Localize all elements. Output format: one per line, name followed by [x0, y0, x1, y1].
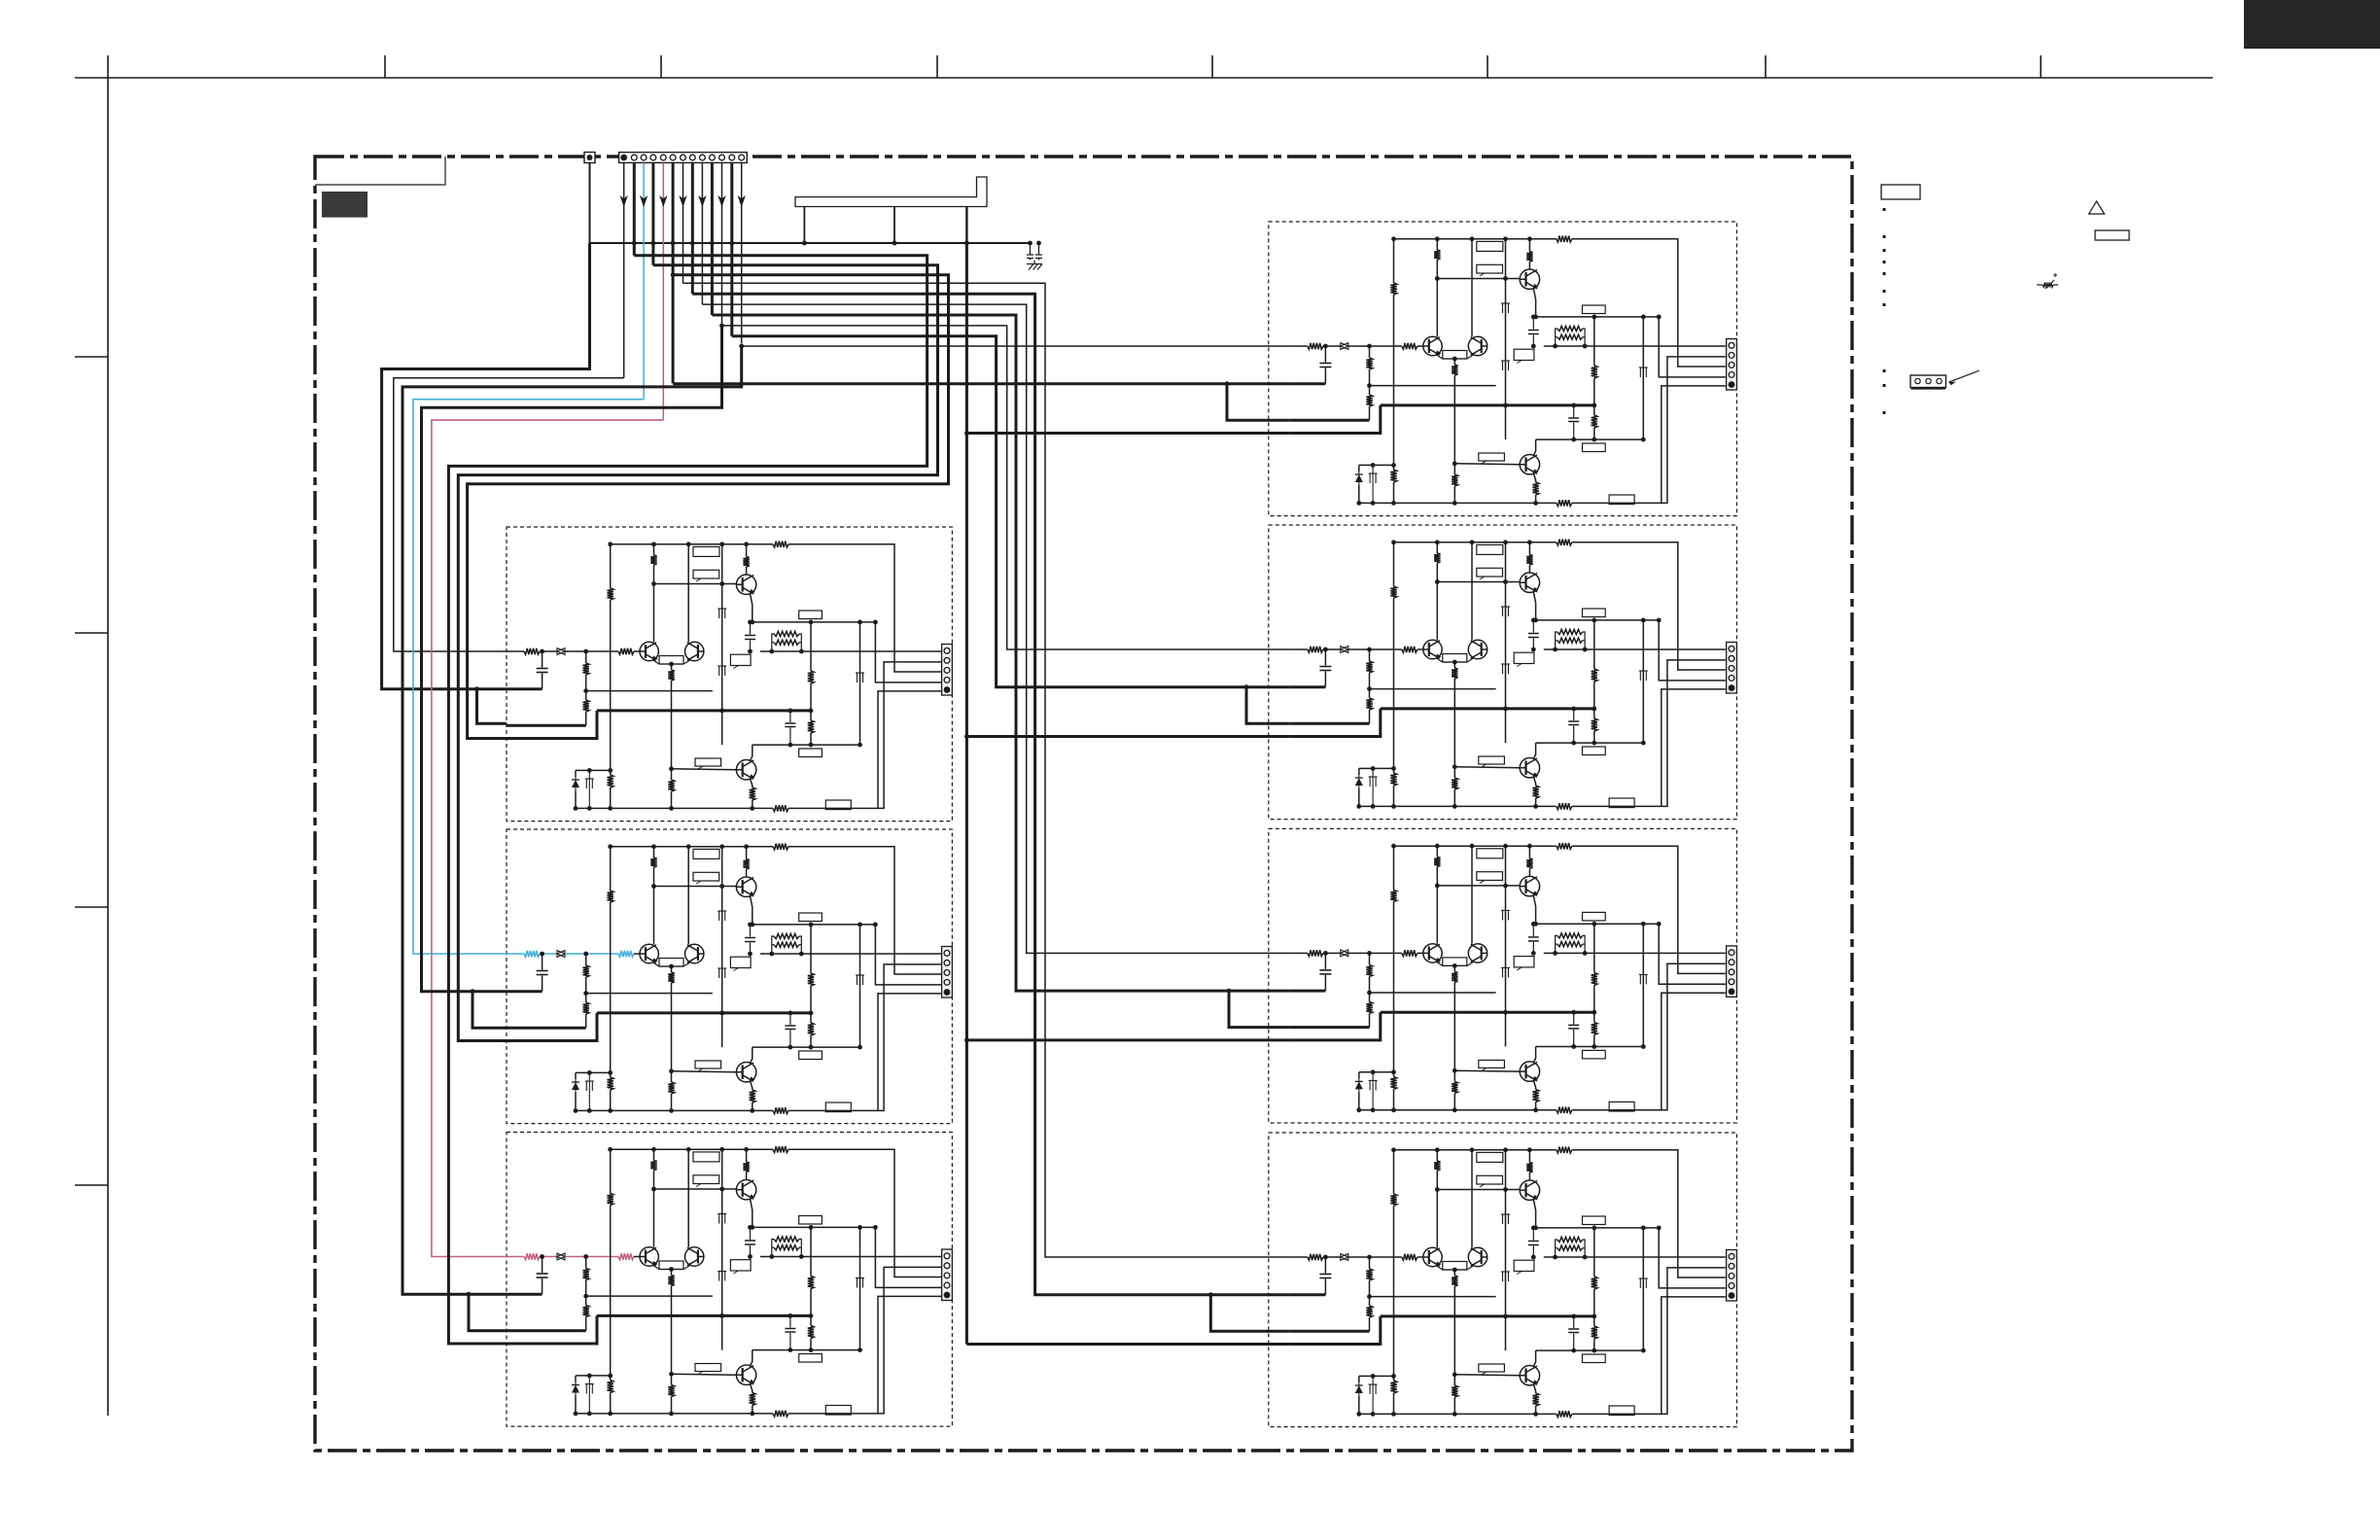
wire pin4 feed R3 [1659, 924, 1726, 984]
wire R1 input feed [742, 345, 1290, 347]
wire column3 R3 [1505, 846, 1507, 1046]
label box2 R3 [1477, 872, 1503, 881]
zener diode L3 [576, 1375, 611, 1377]
label box2 L1 [693, 570, 719, 578]
label box6 R4 [1583, 1354, 1606, 1363]
wire thick rail R3 [1381, 1011, 1594, 1014]
resistor top rail L1 [773, 542, 788, 547]
resistor parallel pair R3 [1553, 951, 1557, 956]
resistor base R4 [1402, 1254, 1417, 1260]
diode input R4 [1341, 1254, 1348, 1261]
transistor pair right L3 [685, 1247, 704, 1266]
resistor collector R4 [1434, 1161, 1440, 1171]
wire base line Q1 L2 [654, 886, 737, 888]
label box1 R2 [1477, 544, 1503, 554]
transistor Q2 R3 [1520, 1062, 1539, 1081]
wire midline to pin1 L3 [760, 1256, 942, 1258]
wire node line2 R1 [1536, 438, 1644, 440]
resistor below rail L3 [810, 1315, 812, 1325]
resistor tail L3 [671, 1374, 673, 1384]
wire input line R4 [1290, 1256, 1308, 1258]
wire link R1 [1370, 385, 1496, 387]
diode input L2 [557, 951, 565, 958]
wire signal pin 5 [662, 163, 664, 421]
resistor emitter R2 [1452, 668, 1457, 679]
resistor top rail R1 [1557, 236, 1572, 242]
pin 2 L1 [944, 657, 950, 663]
resistor Q2 emitter R4 [1533, 1384, 1535, 1394]
wire column4 L3 [859, 1227, 861, 1349]
marking lower R3 [1372, 1072, 1374, 1081]
pin 12 main connector [729, 155, 735, 160]
pin 2 R4 [1729, 1263, 1734, 1269]
label box3 R2 [1583, 609, 1606, 617]
marking lower R4 [1372, 1376, 1374, 1384]
pin 3 main connector [641, 155, 647, 160]
label box3 R4 [1583, 1216, 1606, 1225]
marking column3 R4 [1502, 1214, 1504, 1224]
resistor node1 L1 [810, 622, 812, 671]
capacitor mid R2 [1532, 620, 1534, 633]
pin 1 main connector [620, 155, 627, 161]
label pointer L1 [730, 654, 751, 665]
marking column4 R1 [1639, 367, 1641, 377]
diode input R2 [1341, 647, 1348, 653]
label box1 L3 [693, 1152, 719, 1162]
wire Q2 base L3 [672, 1373, 737, 1376]
resistor base L3 [618, 1253, 634, 1259]
wire midline to pin1 R2 [1544, 648, 1726, 650]
wire column2 R1 [1471, 239, 1473, 336]
resistor below rail R3 [1593, 1012, 1595, 1022]
resistor Q2 emitter L3 [751, 1383, 752, 1393]
label box5 R2 [1479, 756, 1505, 764]
resistor input R3 [1308, 950, 1323, 956]
capacitor mid L1 [750, 622, 752, 635]
wire base line Q1 R3 [1437, 885, 1520, 887]
heatsink bar outline [795, 177, 987, 207]
wire link R2 [1370, 688, 1496, 690]
label box7 R4 [1609, 1406, 1634, 1416]
transistor pair left L1 [640, 642, 658, 660]
wire input line R2 [1290, 648, 1308, 650]
resistor collector R1 [1434, 250, 1440, 260]
capacitor input L3 [542, 1257, 543, 1274]
wire L3-A feed [402, 346, 742, 1294]
wire bottom cluster L3 [576, 1413, 611, 1415]
pin 5 R3 [1729, 989, 1735, 996]
wire square pin drop [589, 163, 591, 244]
wire pin5 feed L2 [878, 994, 942, 1111]
transistor pair right R3 [1468, 944, 1487, 962]
connector output L2 [942, 947, 953, 998]
connector output R2 [1727, 643, 1737, 694]
wire A R4 [1290, 1293, 1326, 1296]
resistor node1 L3 [810, 1227, 812, 1276]
resistor below rail L2 [810, 1013, 812, 1023]
wire node line1 L3 [752, 1226, 876, 1228]
label box6 L3 [799, 1354, 822, 1363]
wire pin5 feed R1 [1662, 386, 1726, 504]
connector main top [619, 153, 748, 163]
crop mark left vertical [107, 55, 109, 1416]
label pair L1 [659, 656, 683, 665]
resistor bottom rail R1 [1557, 500, 1572, 506]
wire supply pin 12 [730, 163, 733, 336]
wire bottom rail right R3 [1572, 963, 1726, 1110]
resistor bottom rail R2 [1557, 803, 1572, 809]
label box3 R1 [1583, 305, 1606, 314]
wire column4 R1 [1642, 317, 1644, 439]
transistor pair left R4 [1423, 1247, 1442, 1266]
pin 5 L1 [944, 686, 951, 693]
resistor lower left L3 [608, 1381, 613, 1393]
wire Q2 base R3 [1454, 1069, 1520, 1072]
amplifier block R3 outline [1269, 828, 1737, 1123]
board border dash-dot [315, 157, 1852, 1451]
resistor emitter L3 [668, 1276, 674, 1286]
wire left vertical L1 [610, 544, 612, 588]
wire R1-A feed [673, 382, 1290, 385]
wire pair emitters R3 [1436, 962, 1475, 966]
wire bottom rail R1 [1394, 502, 1557, 504]
wire L2-C feed U-turn [458, 265, 937, 1041]
wire Q1 emitter R4 [1533, 1200, 1535, 1228]
wire left vertical L3 [610, 1149, 612, 1193]
resistor base L2 [618, 951, 634, 957]
wire R4-C feed [966, 1343, 1289, 1346]
wire pair emitters R1 [1436, 355, 1475, 360]
resistor input R4 [1308, 1254, 1323, 1260]
resistor collector R2 [1434, 553, 1440, 563]
wire Q2 base L1 [672, 768, 737, 771]
wire pin5 feed R2 [1662, 689, 1726, 807]
resistor Q1 collector R1 [1528, 239, 1530, 252]
wire Q2 base L2 [672, 1070, 737, 1073]
label box2 L3 [693, 1175, 719, 1184]
resistor Q2 emitter R1 [1533, 473, 1535, 483]
wire bar stub 1 [803, 207, 805, 244]
page crop mark top line [75, 77, 2213, 79]
marking lower R2 [1372, 768, 1374, 777]
resistor Q2 emitter L1 [751, 779, 752, 788]
pin 4 L2 [944, 980, 950, 986]
marking column3b L2 [718, 968, 720, 978]
arrow pin 3 [640, 195, 647, 207]
arrow pin 5 [659, 195, 667, 207]
resistor feedback1 L3 [585, 1257, 587, 1269]
wire Q2 collector L1 [751, 745, 752, 760]
marking column3b R1 [1502, 361, 1504, 370]
wire pin5 feed R4 [1662, 1297, 1726, 1415]
marking column3 R3 [1502, 910, 1504, 920]
capacitor output R1 [1573, 405, 1575, 417]
transistor pair left R1 [1423, 336, 1442, 355]
label pointer L2 [730, 957, 751, 967]
wire R1-C feed [966, 432, 1289, 435]
wire top rail R3 [1394, 845, 1557, 847]
wire column3 R1 [1505, 239, 1507, 439]
resistor node1 R1 [1593, 317, 1595, 366]
wire node line2 R2 [1536, 742, 1644, 744]
wire bottom cluster R4 [1359, 1413, 1394, 1415]
wire C R1 [1290, 405, 1381, 434]
label box5 R3 [1479, 1060, 1505, 1067]
wire node line2 L3 [752, 1349, 860, 1351]
square test point symbol [584, 153, 595, 163]
legend box 1 [1881, 185, 1920, 199]
resistor node1 L2 [810, 925, 812, 973]
arrow pin 9 [698, 195, 706, 207]
label box2 R4 [1477, 1175, 1503, 1184]
transistor Q2 L3 [736, 1365, 755, 1384]
resistor left vertical L2 [608, 891, 613, 902]
wire Q2 base R2 [1454, 766, 1520, 769]
marking column3b R2 [1502, 664, 1504, 674]
wire supply pin 6 [672, 163, 675, 384]
resistor Q1 collector L2 [746, 847, 748, 859]
wire Q1 emitter L2 [751, 896, 752, 925]
resistor left vertical L1 [608, 588, 613, 600]
resistor emitter L2 [668, 972, 674, 983]
wire link L2 [586, 993, 713, 995]
wire column4 L1 [859, 622, 861, 745]
resistor feedback2 R3 [1366, 1001, 1372, 1013]
transistor Q1 R2 [1520, 573, 1539, 592]
resistor Q1 collector L1 [746, 544, 748, 557]
wire L1-C feed U-turn [468, 275, 949, 739]
wire collector column L3 [653, 1149, 655, 1160]
wire Q2 collector L2 [751, 1047, 752, 1063]
marking column4 R3 [1639, 974, 1641, 984]
capacitor ground pair [1027, 243, 1033, 261]
wire node line2 R3 [1536, 1046, 1644, 1048]
resistor top rail L3 [773, 1146, 788, 1152]
capacitor output R3 [1573, 1012, 1575, 1024]
wire node line2 R4 [1536, 1349, 1644, 1351]
resistor lower left R4 [1390, 1381, 1396, 1393]
resistor lower left R3 [1390, 1076, 1396, 1089]
wire L1 jog [477, 689, 507, 724]
resistor parallel pair R2 [1553, 647, 1557, 652]
capacitor input R3 [1324, 953, 1326, 969]
wire supply pin 10 [711, 163, 714, 316]
wire signal pin 11 [721, 163, 723, 326]
resistor tail R4 [1453, 1375, 1455, 1385]
wire R2-C feed [966, 735, 1289, 738]
resistor bottom rail R4 [1557, 1411, 1572, 1417]
wire signal pin 9 [701, 163, 703, 305]
wire signal pin 13 [741, 163, 743, 344]
wire link L3 [586, 1295, 713, 1297]
wire column4 R2 [1642, 620, 1644, 743]
ground bus wire [590, 242, 1031, 244]
wire top rail L1 [611, 543, 773, 545]
diode input L3 [557, 1253, 565, 1260]
pin 2 L3 [944, 1263, 950, 1269]
wire top rail right L3 [788, 1149, 942, 1277]
wire bar feed [965, 207, 967, 244]
wire supply pin 2 [633, 163, 636, 256]
label pair R1 [1443, 351, 1467, 360]
wire B R3 [1290, 1026, 1370, 1029]
label box7 R3 [1609, 1102, 1634, 1111]
wire bottom rail right L3 [788, 1267, 942, 1414]
wire bottom rail right L2 [788, 964, 942, 1111]
wire top rail right R3 [1572, 846, 1726, 973]
resistor top rail R4 [1557, 1147, 1572, 1153]
wire L3 input feed pink [432, 420, 663, 1256]
wire R3-C feed [966, 1038, 1289, 1041]
resistor tail L1 [671, 769, 673, 780]
wire C L2 [507, 1013, 597, 1041]
wire signal pin 3 [643, 163, 645, 400]
transistor Q1 L1 [736, 575, 755, 594]
resistor lower left L1 [608, 775, 613, 787]
wire pair emitters L2 [652, 962, 691, 967]
marking column4 R4 [1639, 1278, 1641, 1288]
capacitor output L3 [789, 1315, 791, 1327]
wire column3 L1 [721, 544, 723, 745]
wire R4 jog [1210, 1295, 1290, 1332]
resistor lower left R2 [1390, 773, 1396, 786]
wire pin5 feed R3 [1662, 993, 1726, 1110]
resistor emitter R4 [1452, 1276, 1457, 1286]
capacitor input R2 [1324, 649, 1326, 666]
wire base line Q1 R2 [1437, 581, 1520, 583]
pin 3 R3 [1729, 969, 1734, 975]
wire column2 L3 [687, 1149, 689, 1247]
wire node line2 L2 [752, 1046, 860, 1048]
pin 1 R3 [1729, 950, 1734, 956]
wire bottom rail L1 [611, 807, 773, 809]
resistor feedback1 R2 [1369, 649, 1371, 661]
label box5 L2 [695, 1061, 721, 1068]
pin 8 main connector [689, 155, 695, 160]
wire bottom rail R4 [1394, 1413, 1557, 1415]
pin 2 main connector [631, 155, 637, 160]
transistor Q1 R1 [1520, 269, 1539, 289]
wire bottom rail right R4 [1572, 1268, 1726, 1415]
wire R2 jog [1246, 687, 1290, 724]
marking column3 R2 [1502, 607, 1504, 616]
legend bullet list [1883, 208, 1886, 211]
wire bar stub 2 [893, 207, 895, 244]
pin 1 R4 [1729, 1253, 1734, 1259]
transistor Q1 R4 [1520, 1180, 1539, 1200]
label box3 R3 [1583, 912, 1606, 921]
amplifier block R1 outline [1269, 222, 1737, 516]
label box7 L2 [825, 1102, 851, 1112]
legend box 2 [2095, 230, 2129, 240]
wire column2 R4 [1471, 1150, 1473, 1248]
wire top rail L2 [611, 846, 773, 848]
label box1 R3 [1477, 849, 1503, 858]
pin 4 L3 [944, 1282, 950, 1288]
wire Q1 emitter R1 [1533, 289, 1535, 317]
marking column4 R2 [1639, 671, 1641, 681]
resistor left vertical R3 [1390, 890, 1396, 901]
arrow pin 13 [738, 195, 746, 207]
wire L2 input feed blue [413, 400, 644, 954]
marking column4 L1 [857, 673, 858, 682]
zener diode R4 [1359, 1375, 1394, 1377]
resistor bottom rail L3 [773, 1411, 788, 1417]
resistor collector L2 [650, 857, 656, 867]
wire base line Q1 L3 [654, 1188, 737, 1190]
transistor Q1 L2 [736, 877, 755, 896]
zener diode L1 [576, 769, 611, 771]
transistor pair left R3 [1423, 944, 1442, 962]
capacitor mid R3 [1532, 924, 1534, 936]
resistor lower left R1 [1390, 470, 1396, 482]
amplifier block L2 outline [507, 829, 952, 1124]
resistor base R2 [1402, 647, 1417, 652]
wire Q2 collector R1 [1533, 439, 1535, 455]
resistor feedback1 R1 [1369, 346, 1371, 358]
capacitor mid L3 [750, 1227, 752, 1240]
wire Q2 base R4 [1454, 1374, 1520, 1377]
pin 5 R2 [1729, 684, 1735, 691]
label box5 L3 [695, 1364, 721, 1372]
resistor Q2 emitter L2 [751, 1081, 752, 1091]
label pointer R1 [1514, 349, 1534, 360]
wire A L3 [507, 1293, 542, 1296]
wire base line Q1 R1 [1437, 278, 1520, 280]
wire thick rail L3 [597, 1314, 811, 1317]
wire base line Q1 L1 [654, 583, 737, 585]
wire staircase v6 [692, 294, 1290, 1295]
zener diode R2 [1359, 767, 1394, 769]
zener diode R1 [1359, 464, 1394, 466]
wire supply pin 8 [691, 163, 694, 295]
wire column3 R4 [1505, 1150, 1507, 1350]
arrow pin 11 [717, 195, 725, 207]
wire B L1 [507, 724, 586, 727]
ground symbol [1029, 264, 1033, 270]
label box5 R4 [1479, 1364, 1505, 1372]
wire signal pin 7 [682, 163, 684, 284]
marking column3b L3 [718, 1272, 720, 1281]
zener diode L2 [576, 1071, 611, 1073]
wire top rail L3 [611, 1148, 773, 1150]
wire top rail R4 [1394, 1149, 1557, 1151]
diode input R1 [1341, 343, 1348, 350]
wire midline to pin1 L1 [760, 650, 942, 652]
capacitor mid L2 [750, 925, 752, 937]
resistor base R3 [1402, 950, 1417, 956]
resistor Q2 emitter R3 [1533, 1080, 1535, 1090]
pin 5 L2 [944, 989, 951, 996]
resistor emitter R1 [1452, 365, 1457, 375]
wire midline to pin1 R3 [1544, 952, 1726, 954]
resistor feedback2 L3 [583, 1306, 589, 1317]
wire bottom rail right L1 [788, 662, 942, 809]
wire Q2 collector R3 [1533, 1047, 1535, 1063]
wire collector column R3 [1436, 846, 1438, 857]
pin 5 R4 [1729, 1292, 1735, 1299]
wire A R1 [1290, 382, 1326, 385]
crop ticks left [75, 356, 108, 358]
wire pair emitters R2 [1436, 658, 1475, 663]
arrow pin 7 [679, 195, 686, 207]
resistor tail R2 [1453, 767, 1455, 778]
resistor input R1 [1308, 343, 1323, 349]
wire column2 L2 [687, 847, 689, 945]
wire bottom rail right R1 [1572, 357, 1726, 504]
label box2 R1 [1477, 264, 1503, 273]
resistor bottom rail L2 [773, 1107, 788, 1113]
